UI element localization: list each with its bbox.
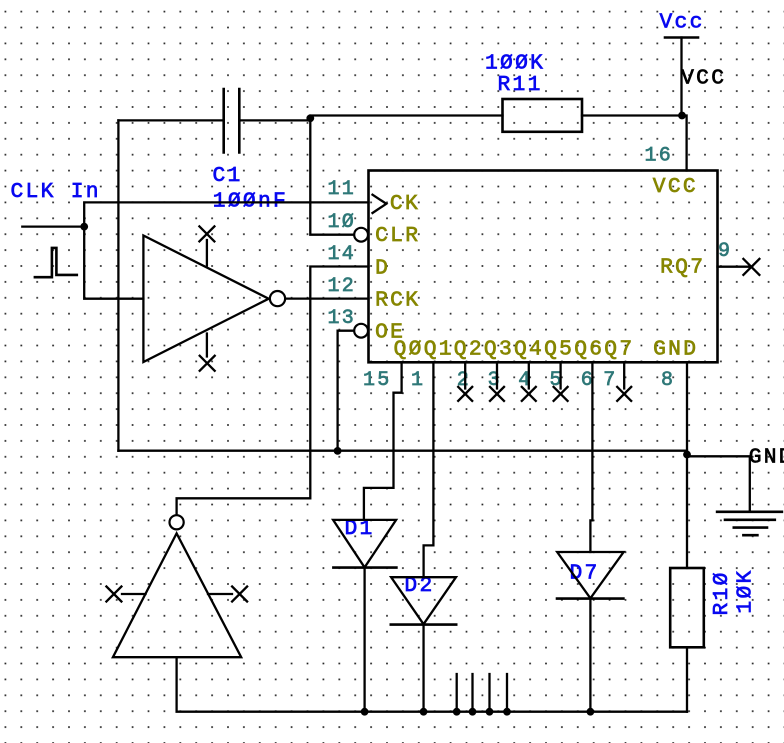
svg-text:1ØK: 1ØK: [734, 568, 758, 613]
svg-text:3: 3: [488, 369, 502, 392]
svg-text:12: 12: [328, 275, 357, 298]
svg-text:D: D: [375, 256, 390, 280]
svg-text:VCC: VCC: [653, 175, 698, 199]
svg-text:15: 15: [363, 369, 392, 392]
svg-text:7: 7: [603, 369, 617, 392]
svg-text:GND: GND: [749, 445, 784, 469]
svg-text:13: 13: [328, 307, 357, 330]
svg-text:R11: R11: [498, 73, 543, 97]
svg-text:RCK: RCK: [375, 289, 420, 313]
svg-text:C1: C1: [213, 164, 243, 188]
svg-text:11: 11: [328, 178, 357, 201]
svg-text:Vcc: Vcc: [660, 11, 705, 35]
svg-text:1: 1: [411, 369, 425, 392]
svg-text:16: 16: [645, 145, 674, 168]
svg-text:CK: CK: [390, 192, 420, 216]
svg-text:R1Ø: R1Ø: [710, 570, 734, 615]
svg-text:GND: GND: [653, 338, 698, 362]
svg-text:1ØØK: 1ØØK: [485, 52, 545, 76]
svg-text:CLK In: CLK In: [11, 180, 101, 204]
svg-text:4: 4: [518, 369, 532, 392]
svg-text:1Ø: 1Ø: [328, 211, 357, 234]
svg-text:9: 9: [718, 240, 732, 263]
svg-text:VCC: VCC: [681, 67, 726, 91]
svg-text:14: 14: [328, 243, 357, 266]
svg-text:CLR: CLR: [375, 224, 420, 248]
svg-text:8: 8: [661, 369, 675, 392]
svg-text:RQ7: RQ7: [660, 256, 705, 280]
svg-text:QØQ1Q2Q3Q4Q5Q6Q7: QØQ1Q2Q3Q4Q5Q6Q7: [394, 338, 635, 362]
